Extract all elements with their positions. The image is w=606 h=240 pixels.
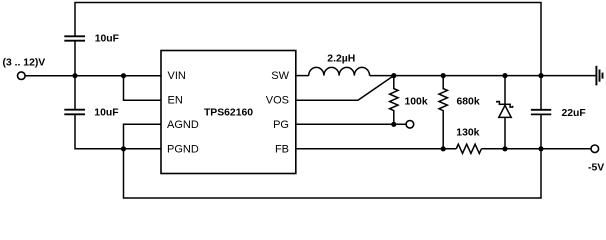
svg-text:10uF: 10uF bbox=[95, 33, 119, 44]
wire top rail from input cap to ground node bbox=[75, 3, 541, 76]
node diode bottom junction bbox=[502, 146, 507, 151]
svg-text:VOS: VOS bbox=[266, 95, 289, 107]
svg-text:VIN: VIN bbox=[168, 70, 186, 82]
wire bottom return rail bbox=[124, 149, 542, 198]
terminal -5V output bbox=[591, 145, 599, 153]
wire SW to inductor bbox=[296, 75, 309, 77]
resistor R3 130k bbox=[456, 144, 481, 153]
terminal input (3..12)V bbox=[18, 72, 26, 80]
svg-text:10uF: 10uF bbox=[94, 107, 118, 118]
node 680k top junction bbox=[441, 73, 446, 78]
svg-text:2.2µH: 2.2µH bbox=[327, 54, 355, 65]
op-amp U1 TPS62160 body bbox=[161, 51, 296, 174]
wire ground rail (inductor to ground symbol) bbox=[370, 75, 596, 77]
svg-text:PG: PG bbox=[273, 119, 289, 131]
wire PGND to IC bbox=[124, 148, 162, 150]
svg-text:PGND: PGND bbox=[167, 143, 199, 155]
capacitor C3 22uF bbox=[540, 76, 542, 110]
node PGND junction bbox=[121, 146, 126, 151]
svg-text:FB: FB bbox=[275, 143, 289, 155]
resistor R2 680k bbox=[439, 76, 447, 149]
wire EN branch bbox=[124, 76, 162, 101]
ground symbol (right) bbox=[596, 66, 602, 86]
svg-text:130k: 130k bbox=[456, 128, 479, 139]
node input junction at C1/C2 bbox=[72, 73, 77, 78]
wire FB line right segment to -5V terminal bbox=[481, 148, 591, 150]
diode D1 (Schottky, cathode up) bbox=[497, 76, 513, 149]
resistor R1 100k bbox=[390, 76, 398, 125]
node SW/100k junction bbox=[391, 73, 396, 78]
capacitor C1 10uF (input top) bbox=[64, 36, 85, 40]
svg-text:SW: SW bbox=[271, 70, 289, 82]
node diode top junction bbox=[502, 73, 507, 78]
svg-text:AGND: AGND bbox=[167, 119, 199, 131]
inductor L1 2.2uH bbox=[309, 67, 370, 75]
node FB/680k junction bbox=[441, 146, 446, 151]
wire input line bbox=[25, 75, 161, 77]
svg-text:TPS62160: TPS62160 bbox=[204, 108, 253, 119]
wire PG line bbox=[296, 123, 407, 125]
wire FB line left segment bbox=[296, 148, 456, 150]
svg-text:680k: 680k bbox=[457, 97, 480, 108]
wire VOS diagonal bbox=[296, 76, 394, 101]
wire C2 bottom to PGND junction bbox=[75, 114, 124, 149]
wire AGND branch bbox=[124, 124, 162, 149]
svg-text:-5V: -5V bbox=[588, 163, 604, 174]
node VIN/EN junction bbox=[121, 73, 126, 78]
wire C1 bottom to input line bbox=[74, 41, 76, 76]
node 22uF bottom junction bbox=[538, 146, 543, 151]
terminal PG bbox=[406, 121, 414, 129]
node 22uF top junction bbox=[538, 73, 543, 78]
node PG/100k junction bbox=[391, 122, 396, 127]
capacitor C2 10uF (input bottom) bbox=[74, 76, 76, 110]
svg-text:22uF: 22uF bbox=[562, 108, 586, 119]
svg-text:100k: 100k bbox=[405, 97, 428, 108]
svg-text:(3 .. 12)V: (3 .. 12)V bbox=[3, 58, 46, 69]
svg-text:EN: EN bbox=[168, 95, 183, 107]
